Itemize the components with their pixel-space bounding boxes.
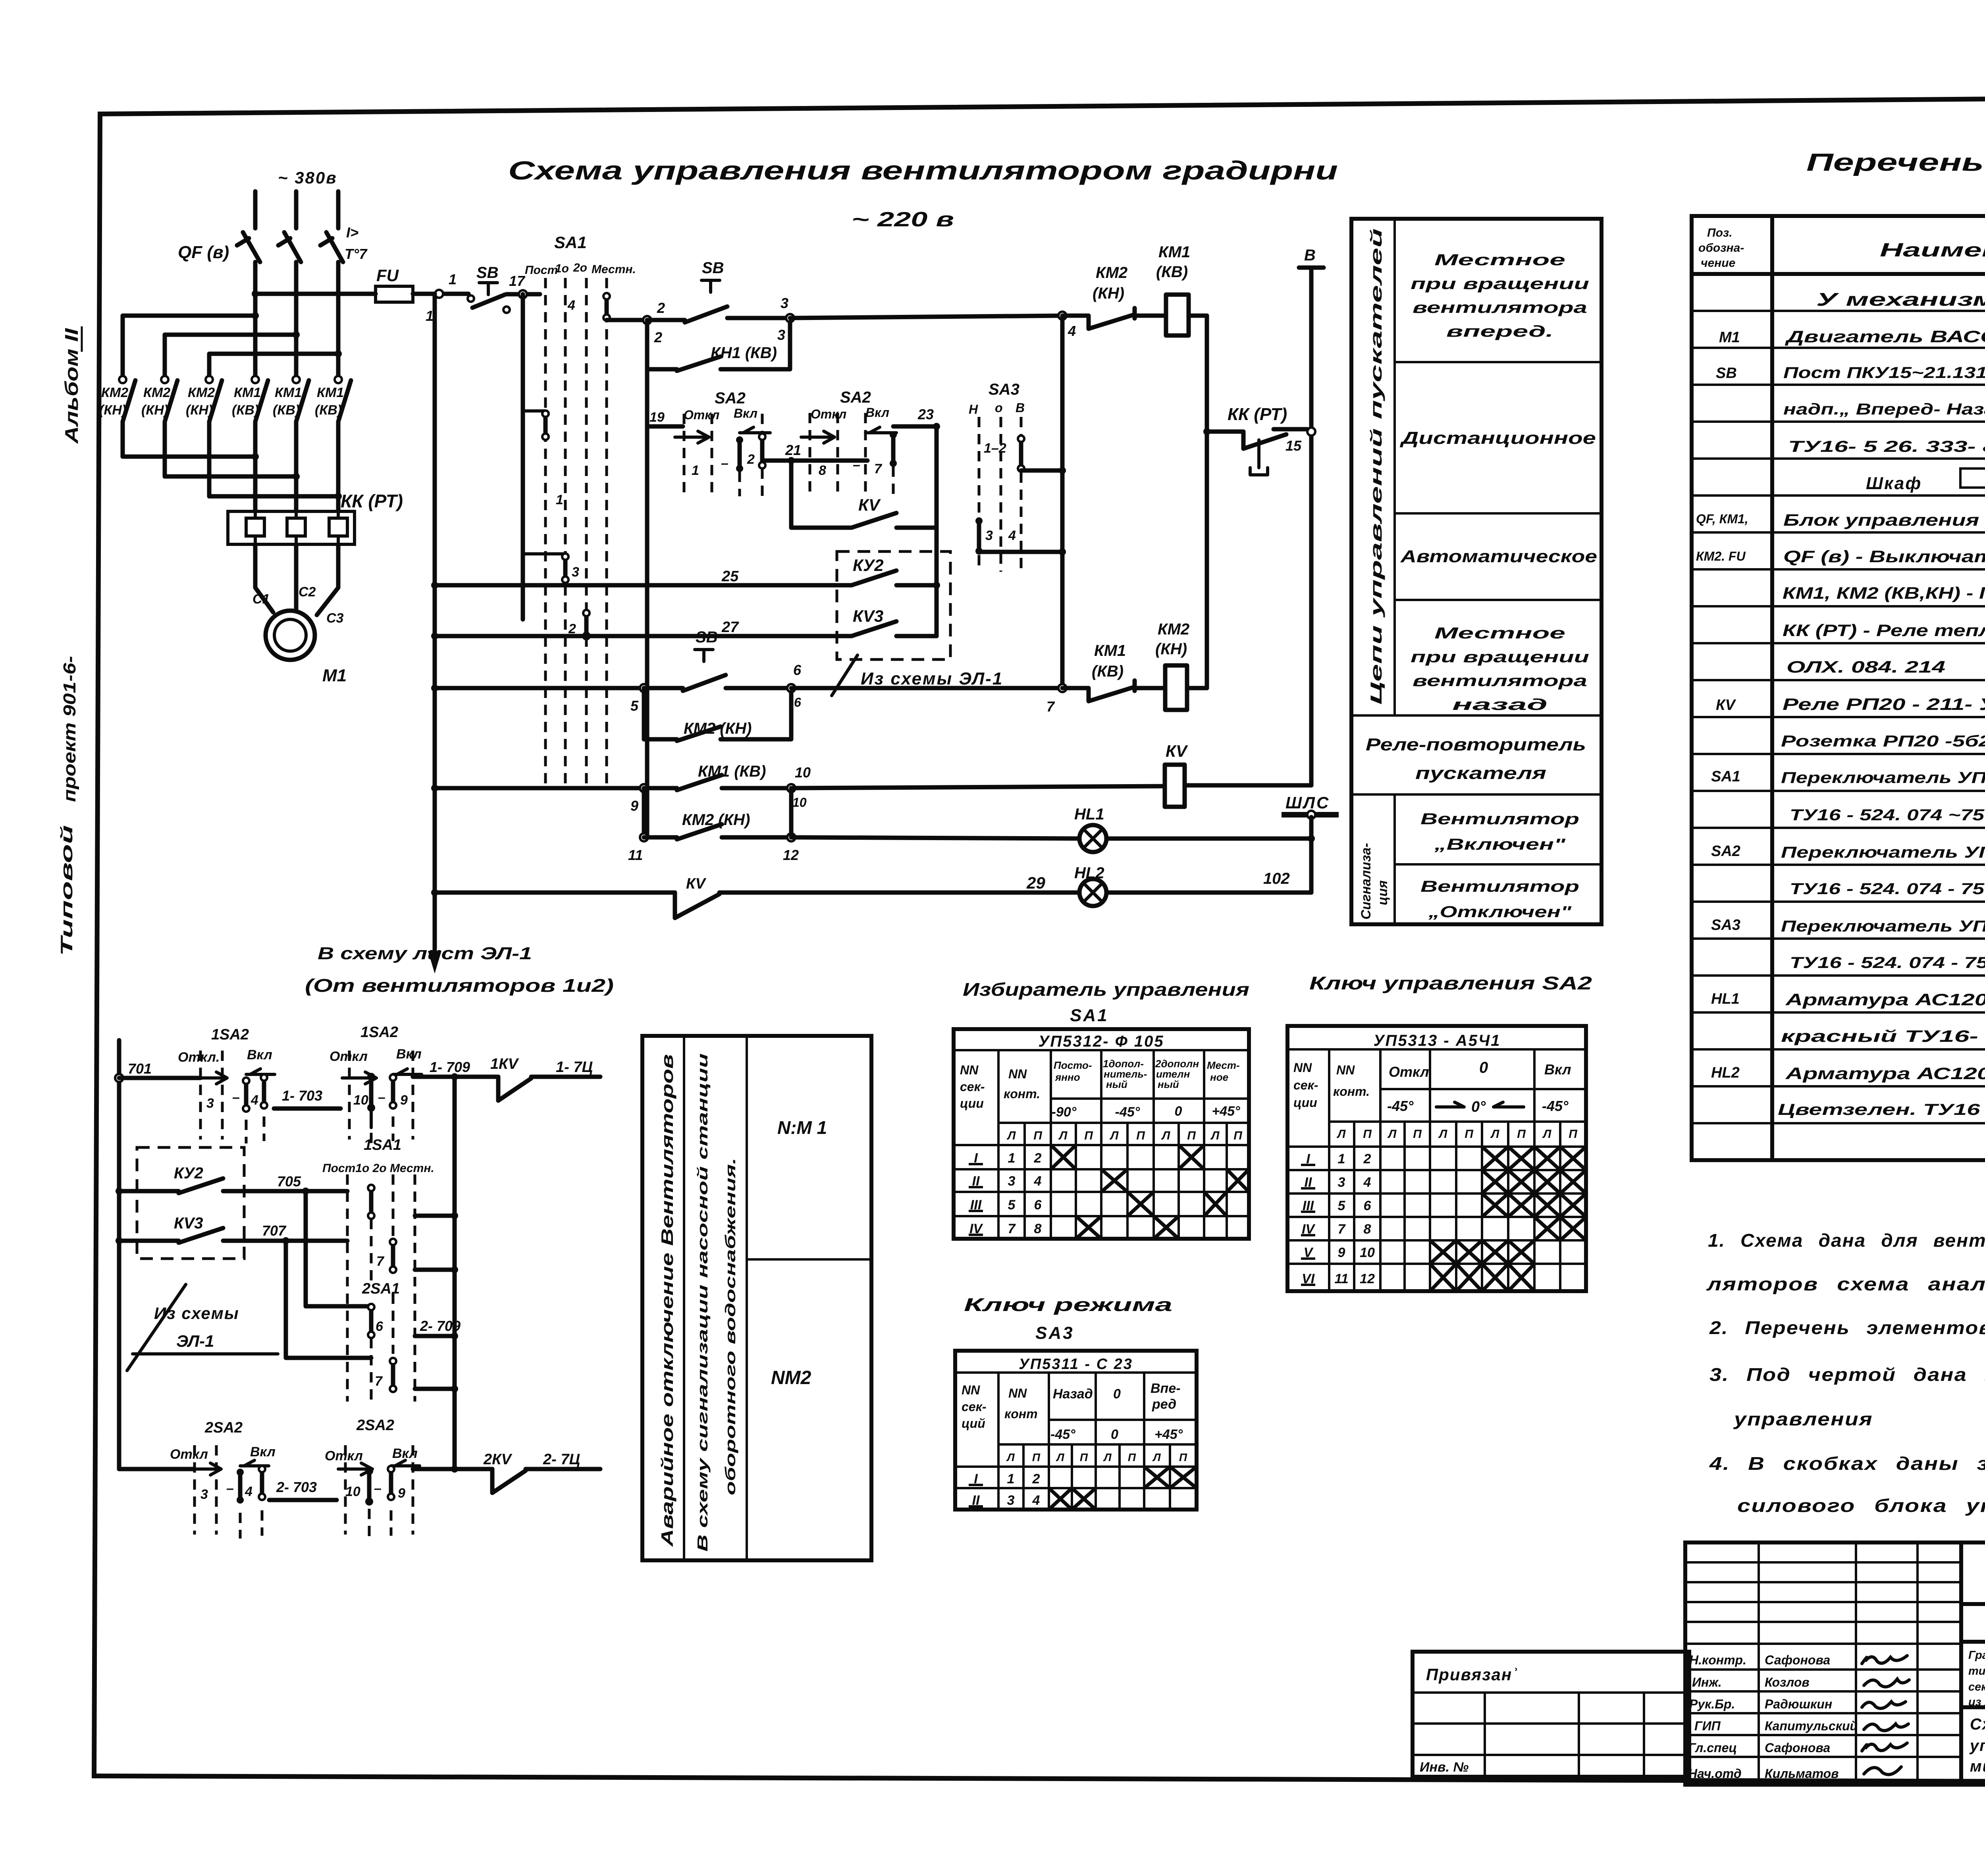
svg-text:0: 0: [1175, 1104, 1182, 1119]
wire row 27 from bus: [435, 621, 937, 636]
svg-text:21: 21: [785, 442, 801, 458]
svg-text:вентилятора: вентилятора: [1413, 299, 1587, 316]
contact KM2(КН) NC symbol: [1062, 308, 1166, 329]
svg-text:SА1: SА1: [1070, 1006, 1109, 1025]
bus B vertical: [1205, 316, 1209, 688]
SA2 table column lines: [1329, 1049, 1534, 1291]
svg-text:4: 4: [1008, 528, 1016, 543]
svg-text:П: П: [1517, 1128, 1526, 1141]
SA1 table header line: [954, 1049, 1249, 1051]
node 11: [640, 833, 648, 841]
heater element phase C: [329, 511, 347, 544]
svg-text:3: 3: [1008, 1174, 1016, 1189]
SA1 contact slug 2о: [583, 610, 590, 639]
svg-text:Пост1о 2о Местн.: Пост1о 2о Местн.: [322, 1162, 434, 1175]
svg-text:5: 5: [1338, 1198, 1346, 1213]
node 7: [1058, 684, 1066, 692]
svg-text:Капитульский: Капитульский: [1765, 1719, 1858, 1733]
vertical node23: [935, 426, 939, 636]
SA3 column lines: [998, 1373, 1144, 1510]
svg-text:8: 8: [1364, 1222, 1371, 1237]
seal-in contact blade: [677, 357, 721, 371]
breaker QF pole B: [278, 232, 301, 262]
svg-text:„Включен": „Включен": [1434, 836, 1566, 853]
1SA2-1 arrows: [193, 1072, 227, 1084]
merge wire pole3 to phase C: [209, 494, 338, 499]
wire SA3-II to node4 vertical: [979, 550, 1062, 554]
svg-text:3: 3: [200, 1487, 208, 1502]
svg-text:КМ2: КМ2: [1158, 621, 1189, 638]
svg-text:–: –: [721, 456, 728, 471]
svg-text:ций: ций: [962, 1416, 985, 1431]
SA1 X marks: [1051, 1145, 1076, 1169]
SA2-2 dashed lines: [809, 413, 811, 496]
svg-text:(КВ): (КВ): [1156, 263, 1188, 281]
1SA2-2 dashed lines: [348, 1051, 351, 1139]
svg-text:(КВ): (КВ): [1092, 663, 1124, 680]
svg-text:SА3: SА3: [1035, 1323, 1074, 1343]
wire node2 to SB: [647, 318, 685, 322]
svg-text:НL1: НL1: [1074, 806, 1104, 823]
breaker QF pole A: [237, 232, 260, 262]
svg-text:КV: КV: [1716, 697, 1736, 713]
svg-text:NМ2: NМ2: [771, 1367, 811, 1388]
svg-text:(КВ): (КВ): [232, 403, 259, 418]
2SA2-2 slug b: [388, 1466, 394, 1500]
svg-text:SВ: SВ: [696, 629, 718, 646]
SA2-1 arrow Откл: [675, 431, 709, 443]
svg-text:11: 11: [628, 847, 643, 863]
svg-text:8: 8: [819, 463, 826, 478]
button SB symbol: [479, 283, 497, 295]
vertical node21 down to KV row: [789, 461, 794, 528]
2SA1 slug 7: [390, 1358, 396, 1392]
node 10: [787, 784, 795, 792]
svg-text:7: 7: [375, 1374, 383, 1389]
svg-text:при вращении: при вращении: [1411, 648, 1589, 666]
2SA2-2 dashed lines: [344, 1445, 347, 1535]
top rail node3 to node4: [790, 316, 1062, 318]
svg-text:17: 17: [509, 273, 526, 289]
svg-text:назад: назад: [1452, 696, 1548, 713]
svg-text:Л: Л: [1007, 1129, 1016, 1142]
wire 1SA1 to bus (lower): [415, 1268, 455, 1272]
svg-text:0: 0: [1479, 1059, 1488, 1076]
node 21 junction: [788, 457, 795, 464]
merge wire pole2 to phase B: [165, 474, 296, 479]
svg-text:Градирня двухсекционная с вен-: Градирня двухсекционная с вен-: [1968, 1649, 1985, 1662]
svg-text:-90°: -90°: [1052, 1105, 1077, 1120]
svg-text:25: 25: [721, 568, 739, 585]
wire 1SA2 out to bus 1-709: [413, 1075, 498, 1079]
contactor contact KM2(КН) pole 2: [161, 376, 177, 476]
svg-text:6: 6: [793, 662, 802, 678]
svg-text:КУ2: КУ2: [853, 556, 884, 575]
svg-text:15: 15: [1285, 438, 1302, 454]
1SA2-2 arrows: [342, 1072, 376, 1084]
svg-text:при вращении: при вращении: [1411, 275, 1589, 293]
SA3 Л/П row: [1006, 1451, 1187, 1463]
coil KM2(КН): [1165, 665, 1187, 710]
svg-text:П: П: [1413, 1128, 1422, 1141]
svg-text:–: –: [226, 1481, 234, 1496]
svg-text:КМ1: КМ1: [317, 385, 344, 400]
wire 705 down to 2SA1: [306, 1191, 371, 1306]
svg-text:КМ2: КМ2: [143, 385, 170, 400]
wire slug to node 21: [762, 459, 828, 463]
svg-text:П: П: [1080, 1451, 1088, 1463]
svg-text:705: 705: [277, 1173, 301, 1190]
seal-in wire to node3: [721, 322, 790, 369]
node 3: [786, 314, 794, 322]
relay contact KV: [791, 513, 937, 528]
project description: [1968, 1649, 1985, 1708]
contactor contact KM1(КВ) pole 1: [252, 376, 268, 511]
svg-text:Сафонова: Сафонова: [1765, 1653, 1830, 1667]
svg-text:12: 12: [1360, 1271, 1375, 1286]
SA1 angle row text: [1052, 1104, 1240, 1120]
svg-text:КМ2. FU: КМ2. FU: [1696, 549, 1746, 563]
svg-text:Розетка РП20 -5б2У3, ТУ16- 52: Розетка РП20 -5б2У3, ТУ16- 523.578- 79: [1781, 733, 1985, 750]
1SA1 slug Пост: [368, 1185, 374, 1219]
2SA2-2 slug a (closed): [365, 1467, 373, 1506]
svg-text:Арматура АС120 11У2, ~ 22: Арматура АС120 11У2, ~ 220В, цвет: [1785, 990, 1985, 1009]
2SA2-1 dashed lines: [193, 1445, 196, 1535]
svg-text:SВ: SВ: [1716, 365, 1737, 382]
node 5: [640, 684, 648, 692]
callout Из схемы ЭЛ-1: [832, 655, 1003, 696]
svg-text:Н: Н: [969, 402, 978, 416]
svg-text:П: П: [1136, 1129, 1145, 1142]
junction on phase A tap: [252, 290, 259, 297]
svg-text:0°: 0°: [1471, 1099, 1486, 1115]
svg-text:SВ: SВ: [702, 259, 724, 277]
svg-text:Откл: Откл: [325, 1448, 363, 1463]
SA1 feed wire from node 17: [521, 294, 525, 619]
svg-text:КМ2: КМ2: [1096, 264, 1127, 281]
svg-text:Вкл: Вкл: [1544, 1061, 1571, 1078]
right bus of lower scheme: [453, 1077, 457, 1469]
svg-text:(КН): (КН): [1093, 285, 1124, 302]
phase wire B down: [294, 262, 299, 376]
svg-text:2КV: 2КV: [483, 1451, 512, 1468]
title block signature table: [1685, 1542, 1961, 1785]
wire bus to node 5: [435, 686, 644, 690]
SA1 contact slug 1о: [562, 553, 569, 583]
svg-text:3. Под чертой дана маркир: 3. Под чертой дана маркировка клемм сило…: [1709, 1364, 1985, 1385]
svg-text:Л: Л: [1388, 1128, 1397, 1141]
motor M1: [266, 611, 315, 660]
svg-text:2- 7Ц: 2- 7Ц: [543, 1451, 580, 1468]
SA1 contact tick 2: [523, 552, 565, 555]
SA1 data rows: [969, 1151, 1042, 1236]
SA1 Местн slug at top: [603, 293, 610, 321]
svg-text:0: 0: [1111, 1427, 1118, 1442]
1SA2-1 slug b: [261, 1074, 267, 1109]
svg-text:Двигатель ВАСО - 10 - 19 -: Двигатель ВАСО - 10 - 19 - 10: [1785, 327, 1985, 346]
svg-text:5: 5: [1008, 1197, 1016, 1213]
wire node12 to lamp HL1: [791, 837, 1079, 839]
svg-text:7: 7: [1338, 1222, 1346, 1237]
svg-text:4: 4: [251, 1093, 258, 1108]
svg-text:~ 220 в: ~ 220 в: [852, 208, 954, 231]
svg-text:Вентилятор: Вентилятор: [1420, 810, 1579, 828]
1SA2-2 slug b: [390, 1074, 396, 1109]
thermal contact heater mark: [1250, 440, 1268, 475]
SA3 header line: [955, 1371, 1197, 1374]
busbar ШЛС: [1282, 812, 1339, 817]
svg-text:3: 3: [1007, 1493, 1015, 1508]
SB forward blade: [685, 307, 727, 322]
SA1 dashed line Местн: [605, 278, 608, 790]
node4 vertical down to node7: [1060, 316, 1065, 688]
node 705: [302, 1188, 309, 1195]
svg-text:SА2: SА2: [840, 389, 871, 406]
wire KV coil to right bus: [1185, 783, 1311, 788]
svg-text:2- 703: 2- 703: [276, 1479, 317, 1495]
wire row 19: [647, 424, 683, 429]
svg-text:проект 901-6-: проект 901-6-: [60, 656, 79, 802]
svg-text:„Отключен": „Отключен": [1428, 903, 1572, 921]
svg-text:10: 10: [345, 1484, 360, 1499]
svg-text:М1: М1: [1719, 329, 1740, 346]
phase stub B: [294, 191, 299, 228]
svg-text:из железобетонных элементов.: из железобетонных элементов.: [1968, 1696, 1985, 1708]
control modes table frame: [1351, 219, 1601, 924]
svg-text:Сафонова: Сафонова: [1765, 1741, 1830, 1755]
wire SA3-I to node4 vertical: [1021, 469, 1062, 473]
SA2 table header line: [1287, 1048, 1586, 1051]
element list table frame: [1692, 216, 1985, 1160]
svg-text:КV: КV: [686, 875, 706, 892]
svg-text:Местное: Местное: [1434, 251, 1565, 269]
svg-text:сек-: сек-: [1293, 1078, 1318, 1092]
lamp HL2: [1079, 879, 1106, 906]
SA3 row lines: [955, 1420, 1197, 1488]
svg-text:УП5311 - С 23: УП5311 - С 23: [1019, 1356, 1133, 1373]
svg-text:4: 4: [245, 1484, 252, 1499]
svg-text:Л: Л: [1152, 1451, 1161, 1463]
contact KM2(КН) rung4: [644, 824, 791, 839]
svg-text:701: 701: [128, 1060, 152, 1077]
wire terminal В down: [1309, 268, 1314, 785]
SA1 table column lines: [998, 1050, 1204, 1239]
svg-text:ТУ16 - 524. 074 - 75: ТУ16 - 524. 074 - 75: [1790, 880, 1985, 898]
svg-text:С2: С2: [299, 584, 316, 600]
svg-text:ции: ции: [960, 1096, 984, 1111]
svg-text:N:М 1: N:М 1: [777, 1117, 827, 1138]
lower left bus: [117, 1040, 121, 1469]
svg-text:12: 12: [783, 847, 799, 863]
SA3 slug 3-4: [975, 517, 983, 555]
svg-text:КК (РТ) - Реле тепловое Iнэ-: КК (РТ) - Реле тепловое Iнэ- 32А: [1783, 621, 1985, 640]
svg-text:(От вентиляторов 1и2): (От вентиляторов 1и2): [305, 975, 614, 996]
wire node10 to KV coil: [791, 786, 1165, 788]
SA1 table sub column lines: [1025, 1123, 1227, 1239]
wire bus to node 9: [435, 786, 644, 791]
svg-text:Л: Л: [1006, 1451, 1015, 1463]
branch wire phase B to contact column 2: [165, 335, 296, 376]
svg-text:Вентилятор: Вентилятор: [1420, 878, 1579, 895]
modes table row lines: [1351, 362, 1601, 864]
svg-text:Л: Л: [1161, 1129, 1171, 1142]
node 1-709 junction: [451, 1073, 458, 1080]
svg-text:1SА1: 1SА1: [364, 1137, 401, 1153]
junction bus B / KK: [1203, 428, 1210, 435]
svg-text:Арматура АС120 13У2 ~ 2: Арматура АС120 13У2 ~ 2 20 в,: [1785, 1064, 1985, 1083]
svg-text:1: 1: [692, 463, 699, 478]
svg-text:(КН): (КН): [141, 403, 168, 418]
contactor contact KM1(КВ) pole 2: [293, 376, 309, 511]
SA2-1 slug b: [759, 434, 765, 469]
svg-text:В: В: [1016, 401, 1025, 415]
SA2-2 arrow Откл: [801, 431, 834, 443]
svg-text:Л: Л: [1056, 1451, 1064, 1463]
phase wire C down: [336, 262, 341, 376]
dashed box KУ2/KV3: [837, 551, 950, 659]
svg-text:Реле РП20 - 211- У3, U~ 220в: Реле РП20 - 211- У3, U~ 220в,: [1783, 695, 1985, 713]
vertical node9-node11: [642, 788, 646, 837]
element table row lines: [1692, 311, 1985, 1123]
node 4: [1058, 312, 1066, 320]
svg-text:9: 9: [400, 1093, 408, 1108]
document number cell: [1961, 1542, 1985, 1785]
node 17: [519, 290, 527, 298]
svg-text:QF (в): QF (в): [178, 243, 229, 262]
motor lead C1: [255, 544, 273, 612]
svg-text:конт.: конт.: [1333, 1084, 1370, 1099]
2SA2-1 slug a: [237, 1469, 244, 1504]
svg-text:+45°: +45°: [1212, 1104, 1240, 1119]
svg-text:Местное: Местное: [1434, 625, 1565, 642]
breaker QF pole C: [320, 232, 343, 262]
margin text Альбом II: [61, 326, 82, 444]
wire 707 down to 2SA1 lower: [286, 1241, 371, 1358]
wire row 25 from bus: [435, 571, 937, 585]
1SA1 slug 2: [390, 1239, 396, 1273]
phase stub A: [253, 191, 258, 228]
svg-text:3: 3: [1338, 1175, 1345, 1190]
contact KM1(КВ) NC symbol: [1062, 681, 1165, 701]
svg-text:Посто-: Посто-: [1054, 1059, 1092, 1071]
svg-text:Л: Л: [1542, 1128, 1552, 1141]
wire SB to node 17: [507, 292, 540, 297]
svg-text:Инв. №: Инв. №: [1420, 1760, 1469, 1775]
wire coil KM1 to bus B: [1189, 314, 1207, 318]
motor lead C2: [294, 544, 299, 611]
svg-text:Нач.отд: Нач.отд: [1688, 1766, 1742, 1781]
SA2 X marks rows I-III cols7-10: [1430, 1147, 1586, 1291]
node 9: [640, 784, 648, 792]
svg-text:Реле-повторитель: Реле-повторитель: [1366, 735, 1586, 754]
svg-text:SА1: SА1: [554, 233, 587, 252]
svg-text:ТУ16 - 524. 074 - 75: ТУ16 - 524. 074 - 75: [1790, 954, 1985, 972]
svg-text:Из схемы: Из схемы: [154, 1304, 239, 1323]
SA2-1 arrow Вкл: [740, 427, 770, 433]
svg-text:НL2: НL2: [1711, 1064, 1740, 1081]
svg-text:Назад: Назад: [1053, 1386, 1093, 1402]
coil KM1(КВ): [1166, 295, 1189, 335]
svg-text:красный ТУ16- 535.681-: красный ТУ16- 535.681-76: [1781, 1027, 1985, 1045]
SA2 contact table frame: [1287, 1026, 1586, 1291]
svg-text:П: П: [1033, 1129, 1043, 1142]
svg-text:Местн.: Местн.: [592, 263, 636, 276]
svg-text:1- 703: 1- 703: [282, 1087, 322, 1104]
svg-text:С3: С3: [326, 611, 344, 626]
svg-text:П: П: [1569, 1128, 1578, 1141]
svg-text:2: 2: [1034, 1151, 1042, 1166]
svg-text:ред: ред: [1152, 1397, 1176, 1412]
svg-text:управления: управления: [1733, 1409, 1873, 1429]
signature rows text: [1688, 1653, 1858, 1781]
svg-text:янно: янно: [1054, 1071, 1080, 1083]
svg-text:ный: ный: [1106, 1078, 1127, 1090]
wire 2SA2 out to bus: [413, 1467, 492, 1471]
svg-text:управления вентилятора-: управления вентилятора-: [1969, 1737, 1985, 1755]
svg-text:П: П: [1179, 1451, 1187, 1463]
svg-text:Наименование: Наименование: [1880, 240, 1985, 261]
svg-text:1: 1: [1338, 1151, 1345, 1166]
SA2-2 slug: [890, 431, 897, 467]
signal box frame: [642, 1036, 871, 1560]
rail node6 to node7: [791, 686, 1062, 690]
svg-text:надп.„ Вперед- Назад"- Стоп": надп.„ Вперед- Назад"- Стоп": [1783, 401, 1985, 418]
svg-text:1КV: 1КV: [490, 1056, 519, 1072]
svg-text:Альбом II: Альбом II: [61, 328, 82, 444]
svg-text:NN: NN: [962, 1383, 980, 1397]
svg-text:FU: FU: [376, 266, 399, 285]
svg-text:силового блока управления: силового блока управления.: [1737, 1495, 1985, 1516]
svg-text:В схему сигнализации насосно: В схему сигнализации насосной станции: [694, 1053, 711, 1552]
contactor contact KM1(КВ) pole 3: [335, 376, 351, 511]
svg-text:-45°: -45°: [1542, 1098, 1569, 1114]
svg-text:КV: КV: [1166, 742, 1188, 760]
thermal contact KK(РТ): [1207, 429, 1307, 449]
svg-text:0: 0: [1113, 1386, 1121, 1402]
node 707: [282, 1237, 289, 1244]
SA1 contact table frame: [954, 1029, 1249, 1239]
svg-text:Гл.спец: Гл.спец: [1688, 1741, 1737, 1755]
svg-text:КУ2: КУ2: [174, 1165, 203, 1182]
svg-text:1: 1: [1008, 1151, 1016, 1166]
svg-text:С1: С1: [252, 592, 270, 607]
svg-text:сек-: сек-: [962, 1400, 986, 1414]
phase wire A down: [253, 262, 258, 376]
svg-text:-45°: -45°: [1115, 1105, 1140, 1120]
svg-text:Из схемы ЭЛ-1: Из схемы ЭЛ-1: [861, 669, 1003, 688]
heater element phase B: [287, 511, 305, 544]
svg-text:6: 6: [1364, 1198, 1372, 1213]
1SA1 dashed lines: [346, 1174, 349, 1286]
SA1 header cells text: [960, 1063, 1040, 1111]
wire lamp HL1 to ШЛС node: [1106, 837, 1311, 841]
svg-text:Пост: Пост: [525, 264, 558, 277]
svg-text:1SА2: 1SА2: [360, 1024, 398, 1041]
2SA1 slug 6: [368, 1304, 374, 1338]
svg-text:Вкл: Вкл: [734, 406, 757, 420]
svg-text:П: П: [1233, 1129, 1243, 1142]
svg-text:вентилятора: вентилятора: [1413, 672, 1587, 690]
SA2-2 wire row: [828, 459, 867, 463]
svg-text:NN: NN: [1008, 1067, 1027, 1081]
svg-text:I>: I>: [346, 224, 358, 241]
svg-text:Цепи управлений пускателей: Цепи управлений пускателей: [1368, 228, 1385, 705]
svg-text:6: 6: [794, 695, 801, 710]
svg-text:QF, КМ1,: QF, КМ1,: [1696, 512, 1748, 526]
mode row 1 text: [1411, 251, 1589, 340]
svg-text:NN: NN: [1336, 1063, 1355, 1077]
svg-text:ЭЛ-1: ЭЛ-1: [176, 1332, 214, 1350]
